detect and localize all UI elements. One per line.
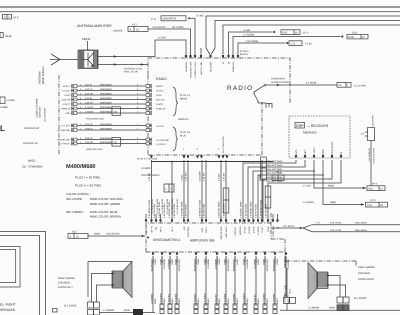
svg-text:M490: M490 bbox=[257, 298, 260, 304]
svg-text:BLUE: BLUE bbox=[180, 134, 186, 137]
svg-text:M680 COLOR: BROWN: M680 COLOR: BROWN bbox=[90, 215, 121, 219]
svg-text:M490/M680: M490/M680 bbox=[100, 88, 112, 91]
svg-text:— RECEIVER: — RECEIVER bbox=[307, 124, 329, 128]
svg-text:TEL MUTE: TEL MUTE bbox=[283, 225, 295, 228]
radio plug C3 brown wire rows bbox=[61, 83, 191, 116]
mute switch S1 bbox=[253, 84, 272, 108]
svg-text:M490: M490 bbox=[171, 298, 174, 304]
connector HL41 bbox=[0, 33, 12, 39]
inline connector 57 bbox=[164, 184, 174, 192]
svg-text:M680 COLOR: GREEN: M680 COLOR: GREEN bbox=[90, 202, 120, 206]
svg-text:2 YL: 2 YL bbox=[316, 222, 321, 225]
amplifier top pins bbox=[145, 219, 280, 239]
svg-text:M490 NOT M680: M490 NOT M680 bbox=[266, 168, 283, 171]
svg-text:SP+ R: SP+ R bbox=[145, 226, 148, 233]
connector IP6 bbox=[3, 15, 19, 20]
speaker LS2 door right bbox=[308, 263, 328, 299]
svg-text:PLUG C1 YELLOW: PLUG C1 YELLOW bbox=[137, 158, 158, 161]
svg-text:0.35 GE: 0.35 GE bbox=[223, 172, 226, 181]
svg-text:M490/M680: M490/M680 bbox=[100, 137, 112, 140]
deep range speaker door right label bbox=[358, 266, 375, 281]
connector W.L door left bbox=[64, 299, 100, 315]
dsp receiver M680-662 box bbox=[289, 116, 350, 158]
radio top connector pins bbox=[185, 55, 239, 78]
radio M490/M680 outline bbox=[148, 58, 290, 155]
svg-text:BRWN: BRWN bbox=[180, 97, 187, 100]
svg-text:M490: M490 bbox=[218, 298, 221, 304]
wire colour labels extra left block bbox=[151, 198, 179, 214]
svg-text:4.0 WT: 4.0 WT bbox=[158, 36, 167, 39]
svg-text:M490/M680: M490/M680 bbox=[100, 127, 112, 130]
wire to connector R05 LP6 bbox=[229, 29, 309, 55]
svg-text:1.5 BR/BK: 1.5 BR/BK bbox=[287, 258, 290, 269]
svg-text:M490: M490 bbox=[236, 258, 239, 264]
svg-text:0.5 GN/RT M680: 0.5 GN/RT M680 bbox=[156, 198, 159, 214]
svg-text:R06L: R06L bbox=[349, 36, 356, 39]
svg-text:COLOR CODING:: COLOR CODING: bbox=[66, 192, 90, 196]
svg-text:M680-662: M680-662 bbox=[303, 131, 317, 135]
wire bus line 5 to radio pin bbox=[223, 25, 400, 55]
speaker LS1 door left bbox=[88, 262, 132, 298]
inline connector on wire (lower left) bbox=[223, 188, 229, 213]
svg-text:TERM 58d: TERM 58d bbox=[232, 61, 235, 72]
connector KE7 (bottom) bbox=[68, 230, 88, 238]
svg-text:ANTENNA: ANTENNA bbox=[185, 61, 188, 72]
svg-text:M618-M680: M618-M680 bbox=[355, 229, 367, 232]
svg-text:0.75/GN: 0.75/GN bbox=[85, 106, 94, 109]
antenna wire shield vertical label bbox=[39, 66, 46, 84]
svg-text:0.35 GN/BL: 0.35 GN/BL bbox=[246, 40, 259, 43]
svg-text:+: + bbox=[89, 299, 91, 302]
svg-text:M680: M680 bbox=[224, 258, 227, 264]
inline connector on dsp wire bbox=[265, 186, 271, 208]
svg-text:LF-GROUND: LF-GROUND bbox=[57, 129, 70, 132]
svg-text:D 0 9: D 0 9 bbox=[370, 199, 376, 202]
svg-text:PLUG C3: PLUG C3 bbox=[180, 94, 191, 97]
svg-text:CD - CHANGER: CD - CHANGER bbox=[22, 165, 43, 169]
svg-text:D+12V: D+12V bbox=[244, 226, 247, 233]
svg-text:12V: 12V bbox=[183, 226, 186, 230]
cd/radio group labels bbox=[23, 127, 40, 145]
wire colour labels (radio-amp harness) bbox=[148, 199, 268, 218]
svg-text:0.5 GN/RT M680: 0.5 GN/RT M680 bbox=[151, 198, 154, 214]
svg-text:D-DATA: D-DATA bbox=[257, 226, 260, 234]
svg-text:25: 25 bbox=[136, 29, 139, 32]
svg-text:RADIO: RADIO bbox=[227, 85, 253, 92]
svg-text:LF-LEFT: LF-LEFT bbox=[61, 125, 70, 128]
svg-text:1: 1 bbox=[8, 16, 10, 19]
svg-text:GND/MONO: GND/MONO bbox=[178, 259, 181, 272]
svg-text:GND: GND bbox=[65, 112, 70, 115]
svg-text:1.5 BR/BK: 1.5 BR/BK bbox=[163, 258, 166, 269]
svg-text:0.5 BN: 0.5 BN bbox=[196, 15, 204, 18]
svg-text:0.35 BN/WT M490: 0.35 BN/WT M490 bbox=[148, 199, 151, 218]
svg-text:BUS TO AMP: BUS TO AMP bbox=[200, 61, 203, 74]
svg-text:PLUG II = 20 PINS: PLUG II = 20 PINS bbox=[75, 183, 101, 187]
svg-text:TEL-MUTE: TEL-MUTE bbox=[210, 61, 213, 72]
wire colour labels (speaker harness) bbox=[151, 258, 291, 304]
svg-text:IN/AL TELVN: IN/AL TELVN bbox=[124, 71, 138, 74]
svg-text:C66/05B: C66/05B bbox=[113, 30, 123, 33]
svg-text:TERM 30: TERM 30 bbox=[61, 108, 71, 111]
svg-text:M492: M492 bbox=[28, 159, 35, 163]
antenna amplifier MW41 designator bbox=[82, 37, 91, 50]
connector block (filled) bbox=[133, 309, 143, 315]
svg-text:KE 7: KE 7 bbox=[132, 24, 138, 27]
svg-text:0.35 RT M490: 0.35 RT M490 bbox=[185, 203, 188, 218]
svg-text:LF-RIGHT: LF-RIGHT bbox=[156, 143, 167, 146]
svg-text:-: - bbox=[95, 299, 96, 302]
svg-text:CONTROL: CONTROL bbox=[187, 226, 190, 237]
svg-text:M490: M490 bbox=[276, 258, 279, 264]
svg-text:CL ALARM: CL ALARM bbox=[354, 84, 366, 87]
svg-text:LF-GROUND: LF-GROUND bbox=[57, 139, 70, 142]
svg-text:M490 NOT M680: M490 NOT M680 bbox=[266, 172, 283, 175]
svg-text:AND RADIO: AND RADIO bbox=[39, 106, 42, 118]
svg-text:M490 COLOR: BLUE: M490 COLOR: BLUE bbox=[90, 210, 118, 214]
svg-text:1.5 BR/BK: 1.5 BR/BK bbox=[168, 258, 171, 269]
svg-text:DEEP RANGE: DEEP RANGE bbox=[358, 266, 375, 269]
svg-text:0.35 YE: 0.35 YE bbox=[85, 88, 93, 91]
wire NET M490 from KE7 bbox=[148, 26, 191, 55]
wire tel mute split bbox=[271, 222, 400, 232]
svg-text:0.35 GN/YW: 0.35 GN/YW bbox=[106, 233, 120, 236]
svg-text:1.5 GN/RD: 1.5 GN/RD bbox=[243, 293, 246, 304]
svg-text:GND/MONO: GND/MONO bbox=[266, 259, 269, 272]
svg-text:M490/M680: M490/M680 bbox=[100, 123, 112, 126]
speaker output wires bbox=[153, 256, 286, 312]
svg-text:R 62: R 62 bbox=[367, 204, 373, 207]
svg-text:D-CLK: D-CLK bbox=[253, 226, 256, 233]
connector K8 CL ALARM bbox=[337, 82, 366, 87]
wire bus line 4 to radio pin bbox=[211, 21, 400, 55]
amplifier 996 outline bbox=[146, 213, 285, 268]
svg-text:CONNECTOR WIRE: CONNECTOR WIRE bbox=[36, 98, 39, 118]
wire top bus line 2 bbox=[0, 11, 400, 13]
svg-text:CONTROL S1GA: CONTROL S1GA bbox=[194, 61, 197, 78]
svg-text:HL41: HL41 bbox=[5, 34, 12, 38]
junction dots dsp bbox=[313, 170, 324, 176]
svg-text:M680: M680 bbox=[257, 258, 260, 264]
groups label bbox=[178, 118, 189, 121]
svg-text:M680-M60 0.35W: M680-M60 0.35W bbox=[86, 148, 103, 151]
svg-text:L: L bbox=[0, 124, 5, 133]
connector node 2L4 bbox=[0, 97, 15, 104]
wires speaker door left bbox=[92, 273, 114, 302]
svg-text:DSP -: DSP - bbox=[201, 226, 204, 232]
svg-text:0.35 W: 0.35 W bbox=[85, 83, 93, 86]
svg-text:GND/MONO: GND/MONO bbox=[273, 259, 276, 272]
connector D11 GRN/ZPT05 bbox=[151, 16, 192, 21]
svg-text:M490/M680: M490/M680 bbox=[100, 101, 112, 104]
svg-text:1.5 BR/BK: 1.5 BR/BK bbox=[273, 293, 276, 304]
svg-text:1.5 GE/BK: 1.5 GE/BK bbox=[263, 293, 266, 304]
wire colour labels upper band bbox=[148, 170, 262, 181]
svg-text:AF- L: AF- L bbox=[171, 226, 174, 232]
svg-text:DATA: DATA bbox=[156, 94, 162, 97]
svg-text:TERM 58d: TERM 58d bbox=[272, 226, 275, 237]
svg-text:0.35 BN/WT M490: 0.35 BN/WT M490 bbox=[260, 199, 263, 218]
connector P12 bbox=[284, 294, 296, 310]
svg-text:D7: D7 bbox=[380, 188, 384, 191]
svg-text:996 COUPE:: 996 COUPE: bbox=[66, 197, 83, 201]
svg-text:M680: M680 bbox=[175, 258, 178, 264]
svg-text:D-INT: D-INT bbox=[261, 226, 264, 232]
svg-text:ANTENNA AMPLIFIER: ANTENNA AMPLIFIER bbox=[77, 24, 112, 28]
svg-text:DSP-INT: DSP-INT bbox=[234, 226, 237, 235]
svg-text:RESET: RESET bbox=[156, 85, 164, 88]
svg-text:M490/M680: M490/M680 bbox=[100, 110, 112, 113]
svg-text:30: 30 bbox=[228, 61, 231, 64]
svg-text:M680: M680 bbox=[328, 185, 335, 188]
svg-text:LF-RIGHT: LF-RIGHT bbox=[60, 143, 71, 146]
svg-text:1: 1 bbox=[347, 84, 349, 87]
amplifier bottom pins bbox=[152, 252, 288, 264]
svg-text:BLACK: BLACK bbox=[240, 53, 248, 56]
svg-text:M490: M490 bbox=[236, 298, 239, 304]
svg-text:Y0 42: Y0 42 bbox=[305, 43, 312, 46]
svg-text:1.5 BR/BK: 1.5 BR/BK bbox=[246, 258, 249, 269]
svg-text:SPEEDOMETER A: SPEEDOMETER A bbox=[153, 238, 181, 242]
svg-text:KP 4: KP 4 bbox=[372, 182, 378, 185]
svg-text:0.35 YE/BK: 0.35 YE/BK bbox=[330, 229, 342, 232]
radio designation text block bbox=[66, 163, 124, 219]
svg-text:1.5 GE/BK: 1.5 GE/BK bbox=[175, 293, 178, 304]
svg-text:GROUPS: GROUPS bbox=[178, 118, 189, 121]
svg-text:M490: M490 bbox=[154, 258, 157, 264]
antenna amplifier label bbox=[77, 24, 112, 28]
antenna amplifier U MW41 body bbox=[78, 50, 98, 69]
wire to connector R06 D62 bbox=[233, 31, 368, 55]
svg-text:IP 6: IP 6 bbox=[14, 16, 19, 20]
svg-text:0 M680: 0 M680 bbox=[0, 106, 8, 109]
svg-text:0.35 YE/BK: 0.35 YE/BK bbox=[330, 222, 342, 225]
svg-text:CLOCK: CLOCK bbox=[62, 90, 70, 93]
svg-text:SHIELD: SHIELD bbox=[85, 137, 93, 140]
svg-text:AMP-CLOCK: AMP-CLOCK bbox=[220, 226, 223, 240]
wire bus below radio bbox=[151, 161, 273, 163]
cd-changer boundary bbox=[58, 75, 60, 155]
svg-text:GND/MONO: GND/MONO bbox=[233, 259, 236, 272]
svg-text:M490: M490 bbox=[197, 258, 200, 264]
svg-text:TERM 30: TERM 30 bbox=[156, 108, 166, 111]
svg-text:2.5 BK: 2.5 BK bbox=[243, 29, 251, 32]
wire bus line 3 to radio pin bbox=[206, 16, 400, 55]
mid right speaker label bbox=[0, 303, 16, 312]
svg-text:M490: M490 bbox=[266, 298, 269, 304]
svg-text:0.35 RT M490: 0.35 RT M490 bbox=[255, 203, 258, 218]
svg-text:0.35 YE: 0.35 YE bbox=[85, 123, 93, 126]
svg-text:2: 2 bbox=[4, 16, 6, 19]
svg-text:0.5 GN/RT M680: 0.5 GN/RT M680 bbox=[166, 198, 169, 214]
svg-text:0.5 GN/RT M680: 0.5 GN/RT M680 bbox=[171, 198, 174, 214]
svg-text:56: 56 bbox=[114, 141, 118, 145]
svg-text:PLUG C3: PLUG C3 bbox=[180, 131, 191, 134]
svg-text:M490: M490 bbox=[204, 258, 207, 264]
cropped label left edge bbox=[0, 106, 8, 109]
svg-text:CD/RADIO WT: CD/RADIO WT bbox=[24, 127, 40, 130]
svg-text:D0: D0 bbox=[380, 204, 384, 207]
svg-text:0.35 GE M490: 0.35 GE M490 bbox=[203, 203, 206, 218]
svg-text:0.35 BL: 0.35 BL bbox=[85, 97, 93, 100]
wire to connector L76 Y042 bbox=[238, 40, 312, 55]
wire 2.5 GN to KP4 bbox=[303, 171, 385, 191]
wire 0.5 BN from GRN/ZPT05 bbox=[191, 15, 204, 55]
svg-text:4.56 GN/BL/BT: 4.56 GN/BL/BT bbox=[368, 147, 371, 161]
svg-text:SP- R: SP- R bbox=[151, 226, 154, 232]
svg-text:M490: M490 bbox=[163, 298, 166, 304]
svg-text:M490 COLOR: NATURAL,: M490 COLOR: NATURAL, bbox=[90, 197, 124, 201]
svg-text:0.35 GE: 0.35 GE bbox=[85, 141, 94, 144]
svg-text:M490: M490 bbox=[227, 298, 230, 304]
svg-text:34: 34 bbox=[222, 61, 225, 64]
svg-text:SPEAKER: SPEAKER bbox=[358, 272, 370, 275]
svg-text:M490 NOT M680: M490 NOT M680 bbox=[266, 160, 283, 163]
svg-text:M490 NOT M680: M490 NOT M680 bbox=[266, 176, 283, 179]
amplifier boundary extension bbox=[285, 261, 356, 267]
svg-text:0.35 GR: 0.35 GR bbox=[203, 172, 206, 181]
svg-text:WIRE SHIELD: WIRE SHIELD bbox=[42, 66, 45, 84]
svg-text:M490/M680: M490/M680 bbox=[100, 92, 112, 95]
svg-text:0.35 WT: 0.35 WT bbox=[85, 101, 94, 104]
svg-text:AMP-EN: AMP-EN bbox=[239, 226, 242, 235]
svg-text:1.5 GN/RD: 1.5 GN/RD bbox=[160, 293, 163, 304]
svg-text:A: A bbox=[70, 236, 72, 239]
svg-text:M490: M490 bbox=[124, 309, 131, 312]
svg-text:1.5 BR/BK: 1.5 BR/BK bbox=[233, 293, 236, 304]
connector X56 upper bbox=[86, 107, 121, 121]
wire from amplifier to P12 bbox=[284, 268, 292, 297]
svg-text:M680: M680 bbox=[330, 201, 337, 204]
svg-text:M490: M490 bbox=[243, 258, 246, 264]
wire bottom bus right bbox=[280, 307, 400, 311]
svg-text:M490/M680: M490/M680 bbox=[100, 106, 112, 109]
wire 4.0 WT loop bbox=[155, 36, 186, 55]
connector W.L door right bbox=[337, 297, 367, 311]
wire KE7 to amplifier bbox=[88, 233, 149, 239]
svg-text:M490/M680: M490/M680 bbox=[66, 163, 96, 170]
node L bbox=[0, 124, 5, 133]
svg-text:0.35 GR M490: 0.35 GR M490 bbox=[245, 203, 248, 218]
antenna symbol bbox=[50, 54, 78, 65]
wire bottom bus left bbox=[100, 309, 156, 313]
small connector near enclosure bbox=[53, 309, 58, 313]
inline connector on wire (upper) bbox=[261, 157, 267, 180]
radio bottom connector pins bbox=[150, 136, 228, 159]
cd changer M492 label bbox=[22, 159, 43, 169]
svg-text:R05: R05 bbox=[283, 32, 288, 35]
svg-text:M490: M490 bbox=[178, 298, 181, 304]
svg-text:M490 NOT M680: M490 NOT M680 bbox=[266, 180, 283, 183]
svg-text:+: + bbox=[196, 147, 198, 151]
svg-text:0.5 GN/RT: 0.5 GN/RT bbox=[199, 170, 202, 181]
svg-text:CD-CHANGER: CD-CHANGER bbox=[44, 107, 47, 122]
svg-text:0.35 WS: 0.35 WS bbox=[185, 172, 188, 181]
svg-text:AF+ L: AF+ L bbox=[160, 226, 163, 233]
svg-text:31: 31 bbox=[277, 226, 280, 229]
svg-text:2L4/BN: 2L4/BN bbox=[7, 99, 15, 102]
svg-text:0.35 WS M490: 0.35 WS M490 bbox=[223, 203, 226, 218]
svg-text:DOOR LEFT: DOOR LEFT bbox=[58, 286, 73, 289]
svg-text:+: + bbox=[183, 147, 185, 151]
svg-text:EN: EN bbox=[340, 152, 343, 156]
svg-text:1.5 BR/BK: 1.5 BR/BK bbox=[194, 293, 197, 304]
svg-text:M680: M680 bbox=[171, 258, 174, 264]
svg-text:E BATT: E BATT bbox=[63, 103, 71, 106]
svg-text:+: + bbox=[218, 147, 220, 151]
wire adjuster down bbox=[368, 141, 376, 186]
svg-text:DOOR RIGHT: DOOR RIGHT bbox=[358, 278, 375, 281]
svg-text:0.5 GN/BL: 0.5 GN/BL bbox=[284, 284, 287, 294]
svg-text:0.35 GN: 0.35 GN bbox=[85, 92, 94, 95]
svg-text:2.5 RD/BL: 2.5 RD/BL bbox=[303, 201, 315, 204]
svg-text:DATA: DATA bbox=[64, 94, 70, 97]
svg-text:M616-M680: M616-M680 bbox=[355, 222, 367, 225]
svg-text:38/45: 38/45 bbox=[289, 288, 292, 294]
svg-text:1.5 BL/WT: 1.5 BL/WT bbox=[215, 293, 218, 304]
svg-text:M490: M490 bbox=[160, 258, 163, 264]
svg-text:D-GND: D-GND bbox=[248, 226, 251, 234]
bottom small connectors bbox=[160, 304, 277, 314]
svg-text:1.5 BR/BK: 1.5 BR/BK bbox=[254, 258, 257, 269]
wire 2.5 RD/BL to R62 bbox=[303, 175, 388, 207]
wires dsp to amplifier bbox=[243, 160, 341, 222]
svg-text:RADIO: RADIO bbox=[156, 77, 167, 81]
svg-text:INTERRUPT: INTERRUPT bbox=[331, 141, 334, 155]
svg-text:M490/M680: M490/M680 bbox=[100, 83, 112, 86]
radio label large bbox=[227, 85, 253, 92]
svg-text:M680: M680 bbox=[263, 258, 266, 264]
svg-text:LF-WIRE: LF-WIRE bbox=[141, 167, 151, 170]
svg-text:PLUG SWITCHED: PLUG SWITCHED bbox=[222, 136, 225, 153]
svg-text:M680: M680 bbox=[218, 258, 221, 264]
svg-text:M490: M490 bbox=[329, 307, 336, 310]
svg-text:MW41: MW41 bbox=[82, 37, 91, 41]
svg-text:SHIELD: SHIELD bbox=[85, 127, 93, 130]
svg-text:GND/MONO: GND/MONO bbox=[151, 259, 154, 272]
amplifier stub wires top bbox=[146, 214, 278, 219]
wire antenna amp output upper bbox=[98, 40, 155, 58]
svg-text:0.35 GE: 0.35 GE bbox=[148, 172, 151, 181]
svg-text:0.5 GN/RT M680: 0.5 GN/RT M680 bbox=[176, 198, 179, 214]
svg-text:CLOCK: CLOCK bbox=[156, 90, 164, 93]
radio plug A label bbox=[240, 50, 249, 56]
svg-text:DEEP RANGE: DEEP RANGE bbox=[58, 277, 75, 280]
wires radio to amplifier bbox=[152, 160, 263, 222]
svg-text:M490 NOT M680: M490 NOT M680 bbox=[373, 147, 376, 163]
svg-text:LP 6: LP 6 bbox=[303, 32, 309, 35]
svg-text:D 5: D 5 bbox=[361, 133, 365, 136]
svg-text:0.5 BL: 0.5 BL bbox=[181, 174, 184, 181]
svg-text:1.5 GE/BK: 1.5 GE/BK bbox=[224, 293, 227, 304]
svg-text:TEL: TEL bbox=[155, 226, 158, 231]
wire top bus line 1 bbox=[0, 6, 400, 8]
svg-text:996 CABRIO:: 996 CABRIO: bbox=[66, 210, 84, 214]
bass speaker enclosure outlines bbox=[0, 232, 46, 315]
svg-text:K8: K8 bbox=[339, 84, 343, 87]
svg-text:ALARM CONTACT: ALARM CONTACT bbox=[271, 81, 291, 84]
svg-text:SPEAKERS 25W: SPEAKERS 25W bbox=[190, 62, 193, 78]
svg-text:RESET: RESET bbox=[63, 85, 71, 88]
svg-text:KE 7: KE 7 bbox=[72, 230, 78, 233]
svg-text:1.5 BR/BK: 1.5 BR/BK bbox=[215, 258, 218, 269]
svg-text:CD/AUDIO SE: CD/AUDIO SE bbox=[23, 142, 38, 145]
svg-text:GND/MONO: GND/MONO bbox=[194, 259, 197, 272]
svg-text:E BATT: E BATT bbox=[156, 103, 164, 106]
svg-text:SPEAKER: SPEAKER bbox=[0, 308, 16, 312]
deep range speaker door left label bbox=[58, 277, 75, 289]
svg-text:1.5 GN/RD: 1.5 GN/RD bbox=[204, 293, 207, 304]
